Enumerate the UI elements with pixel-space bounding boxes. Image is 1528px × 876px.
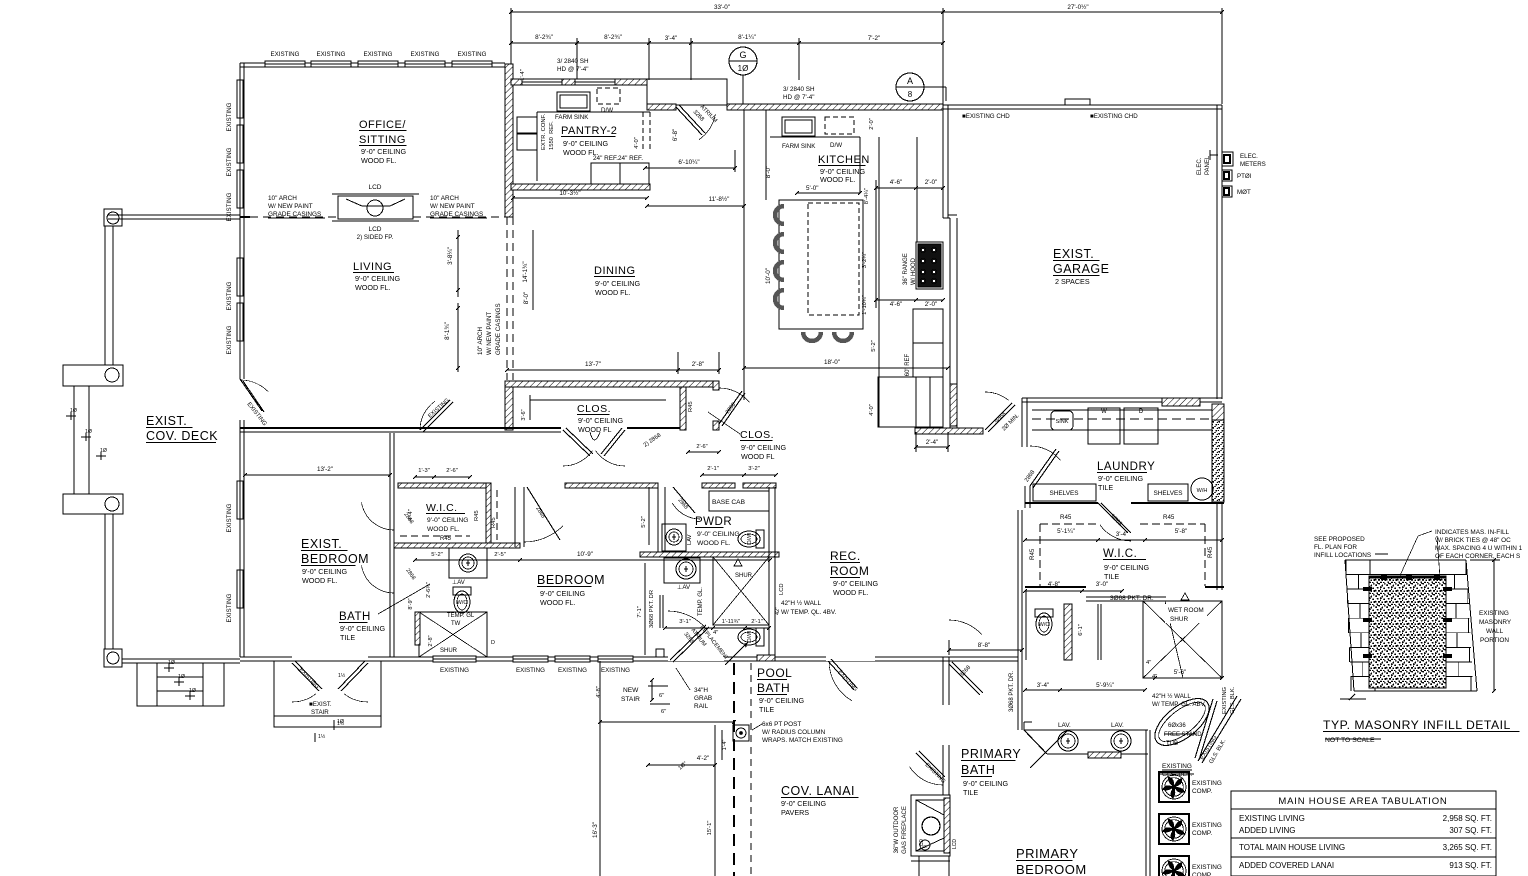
svg-text:LAUNDRY: LAUNDRY — [1097, 461, 1155, 473]
svg-text:6Øx36: 6Øx36 — [1168, 723, 1186, 729]
svg-text:8'-1¾": 8'-1¾" — [444, 322, 451, 340]
svg-text:R45: R45 — [491, 517, 497, 528]
svg-text:EXISTING: EXISTING — [226, 325, 233, 354]
svg-text:EXIST.: EXIST. — [146, 414, 187, 428]
svg-text:EXISTING: EXISTING — [1192, 822, 1222, 829]
svg-text:9'-0" CEILING: 9'-0" CEILING — [1098, 474, 1143, 483]
svg-text:36" RANGE: 36" RANGE — [903, 253, 909, 285]
svg-text:1Ø: 1Ø — [738, 64, 749, 73]
svg-text:9'-0" CEILING: 9'-0" CEILING — [340, 624, 385, 633]
svg-text:GARAGE: GARAGE — [1053, 262, 1110, 276]
svg-text:KITCHEN: KITCHEN — [818, 154, 870, 166]
svg-text:LIVING: LIVING — [353, 261, 392, 273]
svg-text:9'-0" CEILING: 9'-0" CEILING — [540, 589, 585, 598]
svg-text:TILE: TILE — [963, 788, 978, 797]
svg-text:EXISTING: EXISTING — [458, 51, 487, 58]
svg-text:1'-4": 1'-4" — [722, 740, 728, 751]
svg-text:34"H: 34"H — [694, 687, 708, 694]
svg-text:5'-9¼": 5'-9¼" — [1096, 682, 1114, 689]
svg-text:10" ARCH: 10" ARCH — [477, 327, 484, 355]
svg-text:2'-1": 2'-1" — [751, 619, 763, 625]
svg-text:NOT TO SCALE: NOT TO SCALE — [1325, 737, 1375, 744]
svg-text:307 SQ. FT.: 307 SQ. FT. — [1449, 826, 1492, 835]
svg-text:8'-9": 8'-9" — [408, 598, 414, 609]
svg-text:2'-4": 2'-4" — [926, 439, 939, 446]
svg-text:1'-4": 1'-4" — [520, 69, 526, 81]
svg-text:LCD: LCD — [952, 839, 958, 849]
svg-text:MASONRY: MASONRY — [1479, 619, 1512, 626]
svg-text:9'-0" CEILING: 9'-0" CEILING — [697, 531, 740, 538]
svg-text:OF EACH CORNER, EACH S: OF EACH CORNER, EACH S — [1435, 553, 1520, 560]
svg-text:3'-2¼": 3'-2¼" — [862, 252, 868, 268]
svg-text:W.I.C.: W.I.C. — [426, 502, 458, 514]
svg-text:FARM SINK: FARM SINK — [782, 143, 816, 150]
svg-text:4'-0": 4'-0" — [869, 404, 875, 416]
svg-text:R45: R45 — [688, 401, 694, 412]
svg-text:WOOD FL.: WOOD FL. — [427, 526, 460, 533]
svg-text:D: D — [1139, 409, 1144, 415]
svg-text:LCD: LCD — [919, 839, 925, 849]
svg-text:FARM SINK: FARM SINK — [555, 114, 589, 121]
svg-text:EXISTING: EXISTING — [516, 667, 545, 674]
svg-text:3'-6": 3'-6" — [521, 409, 527, 420]
svg-text:3'-2": 3'-2" — [748, 466, 760, 472]
svg-text:LCD: LCD — [368, 226, 381, 233]
svg-text:CLOS.: CLOS. — [577, 403, 611, 415]
svg-text:18'-0": 18'-0" — [824, 359, 840, 366]
svg-text:EXISTING: EXISTING — [440, 667, 469, 674]
svg-text:R45: R45 — [1207, 546, 1214, 558]
svg-text:W/ NEW PAINT: W/ NEW PAINT — [486, 312, 493, 355]
svg-text:13'-7": 13'-7" — [585, 361, 601, 368]
svg-text:NEW: NEW — [623, 687, 639, 694]
svg-text:D/W: D/W — [601, 107, 613, 114]
svg-text:R45: R45 — [1029, 548, 1036, 560]
svg-text:WOOD FL.: WOOD FL. — [302, 576, 338, 585]
svg-text:4'-6": 4'-6" — [890, 301, 903, 308]
svg-text:RAIL: RAIL — [694, 703, 709, 710]
svg-text:TILE: TILE — [1104, 572, 1119, 581]
svg-text:13'-2": 13'-2" — [317, 466, 333, 473]
svg-text:EXIST.: EXIST. — [301, 537, 342, 551]
svg-text:LAV: LAV — [687, 534, 693, 545]
svg-text:HD @ 7'-4": HD @ 7'-4" — [783, 94, 815, 101]
svg-text:5'-8": 5'-8" — [1175, 528, 1188, 535]
svg-text:8'-4¼": 8'-4¼" — [864, 188, 870, 204]
svg-text:WOOD FL.: WOOD FL. — [697, 540, 731, 547]
svg-text:3'-4": 3'-4" — [1037, 682, 1050, 689]
svg-text:EXISTING LIVING: EXISTING LIVING — [1239, 814, 1305, 823]
svg-text:6": 6" — [659, 693, 664, 699]
svg-text:EXISTING: EXISTING — [271, 51, 300, 58]
svg-text:EXTR. CONF.: EXTR. CONF. — [541, 114, 547, 150]
svg-text:4": 4" — [1152, 674, 1157, 680]
svg-text:ADDED COVERED LANAI: ADDED COVERED LANAI — [1239, 861, 1334, 870]
svg-text:1½: 1½ — [318, 733, 326, 740]
svg-text:W/ TEMP. QL. 4BV.: W/ TEMP. QL. 4BV. — [781, 609, 837, 616]
svg-text:8: 8 — [908, 90, 913, 99]
svg-text:COMP.: COMP. — [1192, 872, 1212, 876]
svg-text:5'-2": 5'-2" — [641, 516, 647, 528]
svg-text:⊥AV: ⊥AV — [677, 584, 691, 591]
svg-text:BEDROOM: BEDROOM — [1016, 862, 1087, 876]
svg-text:9'-0" CEILING: 9'-0" CEILING — [563, 139, 608, 148]
svg-text:EXISTING: EXISTING — [1162, 763, 1192, 770]
svg-text:1'-10¾": 1'-10¾" — [862, 295, 868, 315]
svg-text:8'-2¾": 8'-2¾" — [535, 34, 553, 41]
svg-text:GAS FIREPLACE: GAS FIREPLACE — [902, 806, 908, 854]
svg-text:2'-6": 2'-6" — [696, 444, 707, 450]
svg-text:G: G — [739, 50, 746, 60]
svg-text:W/C: W/C — [457, 600, 468, 606]
svg-text:2,958 SQ. FT.: 2,958 SQ. FT. — [1443, 814, 1492, 823]
svg-text:9'-0" CEILING: 9'-0" CEILING — [963, 779, 1008, 788]
svg-text:2'-1": 2'-1" — [707, 466, 719, 472]
svg-text:A: A — [907, 76, 913, 86]
svg-text:9'-0" CEILING: 9'-0" CEILING — [355, 274, 400, 283]
svg-text:SINK: SINK — [1056, 419, 1069, 425]
svg-text:2'-5": 2'-5" — [494, 552, 506, 558]
svg-text:TILE: TILE — [1098, 483, 1113, 492]
svg-text:W/C: W/C — [1039, 622, 1050, 628]
svg-text:14'-1¾": 14'-1¾" — [522, 261, 529, 282]
svg-text:9'-0" CEILING: 9'-0" CEILING — [427, 517, 468, 524]
svg-text:TUB: TUB — [1166, 741, 1178, 747]
svg-text:EXISTING: EXISTING — [226, 147, 233, 176]
svg-text:9'-0" CEILING: 9'-0" CEILING — [741, 443, 786, 452]
svg-text:1'-3": 1'-3" — [418, 468, 430, 474]
svg-text:EXISTING: EXISTING — [601, 667, 630, 674]
svg-text:W/ RADIUS COLUMN: W/ RADIUS COLUMN — [762, 729, 826, 736]
svg-text:SHUR: SHUR — [1170, 616, 1188, 623]
svg-text:WOOD FL: WOOD FL — [578, 425, 612, 434]
svg-text:BATH: BATH — [339, 611, 371, 623]
svg-text:WOOD FL.: WOOD FL. — [540, 598, 576, 607]
svg-text:W/ BRICK TIES @ 48" OC: W/ BRICK TIES @ 48" OC — [1435, 537, 1511, 544]
svg-text:W/ NEW PAINT: W/ NEW PAINT — [268, 203, 313, 210]
svg-text:5'-1¼": 5'-1¼" — [1057, 528, 1075, 535]
svg-text:6": 6" — [661, 709, 666, 715]
svg-text:D: D — [491, 640, 495, 646]
svg-text:5'-2": 5'-2" — [871, 340, 877, 352]
svg-text:9'-0" CEILING: 9'-0" CEILING — [781, 799, 826, 808]
svg-text:INDICATES MAS. IN-FILL: INDICATES MAS. IN-FILL — [1435, 529, 1510, 536]
svg-text:10'-3½": 10'-3½" — [559, 189, 580, 197]
svg-text:⊥AV: ⊥AV — [452, 579, 465, 586]
svg-text:COMP.: COMP. — [1192, 788, 1212, 795]
svg-text:8'-2¾": 8'-2¾" — [604, 34, 622, 41]
svg-text:REC.: REC. — [830, 549, 861, 563]
svg-text:1½: 1½ — [338, 672, 346, 679]
svg-text:LAV.: LAV. — [1111, 722, 1124, 729]
svg-text:TYP. MASONRY INFILL DETAIL: TYP. MASONRY INFILL DETAIL — [1323, 718, 1511, 732]
svg-text:2'-6": 2'-6" — [446, 468, 458, 474]
svg-text:2'-0": 2'-0" — [925, 179, 938, 186]
svg-text:TEMP. GL: TEMP. GL — [447, 613, 475, 619]
svg-text:11'-8½": 11'-8½" — [709, 195, 730, 203]
svg-text:CLOS.: CLOS. — [740, 429, 774, 441]
svg-text:EXISTING: EXISTING — [1222, 686, 1228, 714]
svg-text:■EXISTING CHD: ■EXISTING CHD — [1090, 113, 1138, 120]
svg-text:10" ARCH: 10" ARCH — [430, 195, 459, 202]
svg-text:913 SQ. FT.: 913 SQ. FT. — [1449, 861, 1492, 870]
svg-text:W.I.C.: W.I.C. — [1103, 548, 1137, 560]
svg-text:3Ø68 PKT. DR.: 3Ø68 PKT. DR. — [1009, 671, 1015, 712]
svg-text:R45: R45 — [1163, 514, 1175, 521]
svg-text:EXISTING: EXISTING — [558, 667, 587, 674]
svg-text:W/H: W/H — [1197, 488, 1208, 494]
svg-text:WOOD FL.: WOOD FL. — [820, 175, 856, 184]
svg-text:METERS: METERS — [1240, 161, 1266, 168]
svg-text:2) SIDED FP.: 2) SIDED FP. — [357, 234, 394, 241]
svg-text:W/C: W/C — [745, 534, 751, 545]
svg-text:LCD: LCD — [368, 184, 381, 191]
svg-text:SITTING: SITTING — [359, 134, 406, 146]
svg-text:33'-0": 33'-0" — [714, 4, 730, 11]
svg-text:SHELVES: SHELVES — [1153, 490, 1182, 497]
svg-text:LAV.: LAV. — [1058, 722, 1071, 729]
svg-text:3,265 SQ. FT.: 3,265 SQ. FT. — [1443, 843, 1492, 852]
svg-text:36"W OUTDOOR: 36"W OUTDOOR — [894, 806, 900, 853]
svg-text:WOOD FL.: WOOD FL. — [361, 156, 397, 165]
svg-text:PWDR: PWDR — [695, 516, 732, 528]
svg-text:3'-0": 3'-0" — [1096, 581, 1109, 588]
svg-text:D/W: D/W — [830, 142, 842, 149]
svg-text:EXISTING: EXISTING — [411, 51, 440, 58]
svg-text:COV. LANAI: COV. LANAI — [781, 784, 855, 798]
svg-text:EXISTING: EXISTING — [1192, 864, 1222, 871]
svg-text:9'-0" CEILING: 9'-0" CEILING — [361, 147, 406, 156]
svg-text:16'-3": 16'-3" — [592, 822, 599, 838]
svg-text:WOOD FL.: WOOD FL. — [355, 283, 391, 292]
svg-text:WALL: WALL — [1486, 628, 1504, 635]
svg-text:60" REF: 60" REF — [905, 353, 911, 376]
svg-text:7'-1": 7'-1" — [637, 606, 643, 618]
svg-text:42"H ½ WALL: 42"H ½ WALL — [781, 599, 821, 607]
svg-text:2'-8": 2'-8" — [692, 361, 705, 368]
svg-text:SHELVES: SHELVES — [1049, 490, 1078, 497]
svg-text:PAVERS: PAVERS — [781, 808, 809, 817]
svg-text:1Ø: 1Ø — [337, 719, 344, 725]
svg-text:EXISTING: EXISTING — [317, 51, 346, 58]
svg-text:GRADE CASINGS: GRADE CASINGS — [495, 303, 502, 355]
svg-text:SHUR: SHUR — [440, 648, 458, 654]
svg-text:COMP.: COMP. — [1192, 830, 1212, 837]
svg-text:MØT: MØT — [1237, 189, 1251, 196]
svg-text:EXISTING: EXISTING — [226, 192, 233, 221]
svg-text:6'-10¼": 6'-10¼" — [678, 159, 699, 166]
svg-text:EXISTING: EXISTING — [1479, 610, 1509, 617]
svg-text:BASE CAB: BASE CAB — [712, 499, 746, 506]
svg-text:BATH: BATH — [961, 763, 995, 777]
svg-text:TEMP. GL.: TEMP. GL. — [698, 587, 704, 616]
svg-text:5'-2": 5'-2" — [431, 552, 443, 558]
svg-text:6x6 PT POST: 6x6 PT POST — [762, 721, 801, 728]
svg-text:W/ NEW PAINT: W/ NEW PAINT — [430, 203, 475, 210]
svg-text:BEDROOM: BEDROOM — [537, 573, 605, 587]
svg-text:1550 REF.: 1550 REF. — [549, 121, 555, 150]
svg-text:4": 4" — [713, 630, 718, 636]
svg-text:■EXISTING CHD: ■EXISTING CHD — [962, 113, 1010, 120]
svg-text:24" REF.24" REF.: 24" REF.24" REF. — [593, 155, 643, 162]
svg-text:POOL: POOL — [757, 666, 792, 680]
svg-text:BATH: BATH — [757, 681, 790, 695]
svg-text:5'-0": 5'-0" — [806, 185, 819, 192]
svg-text:WOOD FL.: WOOD FL. — [595, 288, 631, 297]
svg-text:PANTRY-2: PANTRY-2 — [561, 125, 617, 137]
svg-text:BEDROOM: BEDROOM — [301, 552, 369, 566]
svg-text:PRIMARY: PRIMARY — [961, 747, 1021, 761]
svg-text:5'-6": 5'-6" — [1174, 669, 1187, 676]
svg-text:FL. PLAN FOR: FL. PLAN FOR — [1314, 544, 1357, 551]
svg-text:3'-1": 3'-1" — [679, 619, 691, 625]
svg-text:W/ HOOD: W/ HOOD — [911, 257, 917, 285]
svg-text:ROOM: ROOM — [830, 564, 869, 578]
svg-text:6'-1": 6'-1" — [1078, 624, 1084, 636]
svg-text:TW: TW — [451, 621, 461, 627]
svg-text:4'-4": 4'-4" — [408, 509, 414, 521]
svg-text:3'-4": 3'-4" — [1116, 531, 1129, 538]
svg-text:27'-0½": 27'-0½" — [1067, 3, 1088, 11]
svg-text:■EXIST.: ■EXIST. — [309, 701, 332, 708]
svg-text:8'-1¼": 8'-1¼" — [738, 34, 756, 41]
svg-text:R45: R45 — [474, 510, 480, 521]
svg-text:2 SPACES: 2 SPACES — [1055, 277, 1090, 286]
svg-text:W/C: W/C — [745, 632, 751, 643]
svg-text:9'-0" CEILING: 9'-0" CEILING — [302, 567, 347, 576]
svg-text:3/ 2840 SH: 3/ 2840 SH — [783, 86, 815, 93]
svg-text:FREE STAND: FREE STAND — [1164, 732, 1202, 738]
svg-text:ADDED LIVING: ADDED LIVING — [1239, 826, 1295, 835]
svg-text:2'-0": 2'-0" — [869, 118, 875, 130]
svg-text:PRIMARY: PRIMARY — [1016, 846, 1079, 861]
svg-text:EXISTING: EXISTING — [226, 102, 233, 131]
svg-text:9'-0" CEILING: 9'-0" CEILING — [595, 279, 640, 288]
svg-text:4'-8": 4'-8" — [596, 686, 602, 698]
svg-text:10'-9": 10'-9" — [577, 551, 593, 558]
svg-text:WRAPS. MATCH EXISTING: WRAPS. MATCH EXISTING — [762, 737, 843, 744]
svg-text:9'-0" CEILING: 9'-0" CEILING — [1104, 563, 1149, 572]
svg-text:2'-6¼": 2'-6¼" — [426, 582, 432, 598]
svg-text:MAX. SPACING 4 U WITHIN 1: MAX. SPACING 4 U WITHIN 1 — [1435, 545, 1523, 552]
svg-text:EXISTING: EXISTING — [226, 593, 233, 622]
svg-text:GRAB: GRAB — [694, 695, 712, 702]
svg-text:ELEC.: ELEC. — [1197, 157, 1203, 175]
svg-text:2'-8": 2'-8" — [428, 635, 434, 646]
svg-text:R45: R45 — [440, 536, 452, 542]
svg-text:EXISTING: EXISTING — [226, 503, 233, 532]
svg-text:WOOD FL: WOOD FL — [741, 452, 775, 461]
svg-text:R45: R45 — [1060, 514, 1072, 521]
svg-text:SHUR: SHUR — [735, 573, 753, 579]
svg-text:4'-0": 4'-0" — [634, 137, 640, 149]
svg-text:GRADE CASINGS: GRADE CASINGS — [430, 211, 483, 218]
svg-text:42"H ½ WALL: 42"H ½ WALL — [1152, 693, 1191, 700]
svg-text:3Ø68 PKT. DR: 3Ø68 PKT. DR — [649, 590, 655, 628]
svg-text:W: W — [1101, 409, 1107, 415]
svg-text:7'-2": 7'-2" — [868, 35, 881, 42]
svg-text:HD @ 7'-4": HD @ 7'-4" — [557, 66, 589, 73]
svg-text:3'-8¼": 3'-8¼" — [447, 247, 454, 265]
svg-text:INFILL LOCATIONS: INFILL LOCATIONS — [1314, 552, 1371, 559]
svg-text:8'-8": 8'-8" — [978, 642, 991, 649]
svg-text:9'-0" CEILING: 9'-0" CEILING — [833, 579, 878, 588]
svg-text:EXISTING: EXISTING — [364, 51, 393, 58]
svg-text:OFFICE/: OFFICE/ — [359, 119, 406, 131]
svg-text:9'-0" CEILING: 9'-0" CEILING — [759, 696, 804, 705]
svg-text:4'-6": 4'-6" — [890, 179, 903, 186]
svg-text:10'-0": 10'-0" — [765, 268, 772, 284]
svg-text:15'-1": 15'-1" — [707, 821, 713, 836]
svg-text:SEE PROPOSED: SEE PROPOSED — [1314, 536, 1365, 543]
svg-text:3'-4": 3'-4" — [665, 35, 678, 42]
svg-text:GRADE CASINGS: GRADE CASINGS — [268, 211, 321, 218]
svg-text:ELEC.: ELEC. — [1240, 153, 1258, 160]
svg-text:8'-0": 8'-0" — [523, 292, 530, 305]
svg-text:PTØI: PTØI — [1237, 173, 1252, 180]
svg-text:EXISTING: EXISTING — [1192, 780, 1222, 787]
svg-text:WET ROOM: WET ROOM — [1168, 607, 1204, 614]
svg-text:LCD: LCD — [779, 583, 785, 595]
svg-text:1'-11¾": 1'-11¾" — [722, 619, 741, 625]
svg-text:6'-8": 6'-8" — [672, 129, 679, 142]
svg-text:TILE: TILE — [340, 633, 355, 642]
svg-text:MAIN HOUSE AREA TABULATION: MAIN HOUSE AREA TABULATION — [1278, 796, 1447, 807]
svg-text:10" ARCH: 10" ARCH — [268, 195, 297, 202]
svg-text:PORTION: PORTION — [1480, 637, 1509, 644]
svg-text:3/ 2840 SH: 3/ 2840 SH — [557, 58, 589, 65]
svg-text:EXISTING: EXISTING — [226, 281, 233, 310]
svg-text:9'-0" CEILING: 9'-0" CEILING — [578, 416, 623, 425]
svg-text:2'-0": 2'-0" — [925, 301, 938, 308]
svg-text:STAIR: STAIR — [311, 709, 329, 716]
svg-text:TILE: TILE — [759, 705, 774, 714]
svg-text:STAIR: STAIR — [621, 696, 640, 703]
svg-text:COV. DECK: COV. DECK — [146, 429, 218, 443]
svg-text:4": 4" — [1146, 660, 1151, 666]
svg-text:DINING: DINING — [594, 265, 636, 277]
svg-text:WOOD FL.: WOOD FL. — [833, 588, 869, 597]
svg-text:EXIST.: EXIST. — [1053, 247, 1094, 261]
svg-text:4'-2": 4'-2" — [697, 755, 710, 762]
svg-text:TOTAL MAIN HOUSE LIVING: TOTAL MAIN HOUSE LIVING — [1239, 843, 1345, 852]
